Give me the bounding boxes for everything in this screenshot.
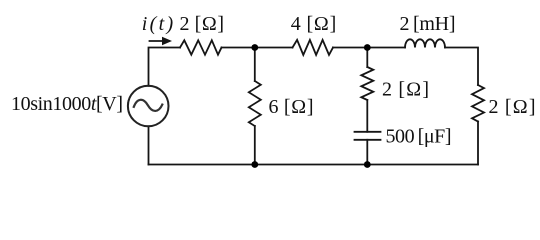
current arrow i(t) [150,40,166,42]
resistor R2 4ohm [293,40,334,55]
wire mid branch top [254,48,256,82]
wire top between R1 and R2 [222,47,293,49]
wire C1 to bottom [366,140,368,165]
wire right bottom segment [477,122,479,165]
resistor R5 2ohm right [472,85,484,122]
wire mid branch bottom [254,126,256,165]
svg-text:2 [Ω]: 2 [Ω] [489,96,536,118]
svg-text:500 [μF]: 500 [μF] [386,126,452,148]
current arrow head [162,37,172,45]
node top-right [364,44,371,51]
wire bottom [149,164,479,166]
svg-text:2 [mH]: 2 [mH] [400,13,456,35]
wire top-left segment [149,48,181,86]
source V1 sine [134,100,163,111]
source V1 circle [128,86,169,127]
svg-text:4 [Ω]: 4 [Ω] [291,13,337,35]
node bottom-right [364,161,371,168]
node bottom-left [251,161,258,168]
wire top-right corner [445,48,478,86]
wire top between R2 and L1 [333,47,405,49]
node top-left [251,44,258,51]
svg-text:10sin1000t[V]: 10sin1000t[V] [11,93,123,115]
inductor L1 2mH [405,39,445,47]
wire source to bottom [148,126,150,164]
svg-text:6 [Ω]: 6 [Ω] [269,96,314,118]
capacitor C1 500uF plates [355,131,381,133]
svg-text:2 [Ω]: 2 [Ω] [180,13,225,35]
resistor R1 2ohm [180,40,222,54]
resistor R3 6ohm [249,81,261,126]
wire RC branch top [366,48,368,68]
wire R4 to C1 [366,100,368,132]
resistor R4 2ohm [361,67,373,100]
svg-text:2 [Ω]: 2 [Ω] [382,79,429,101]
